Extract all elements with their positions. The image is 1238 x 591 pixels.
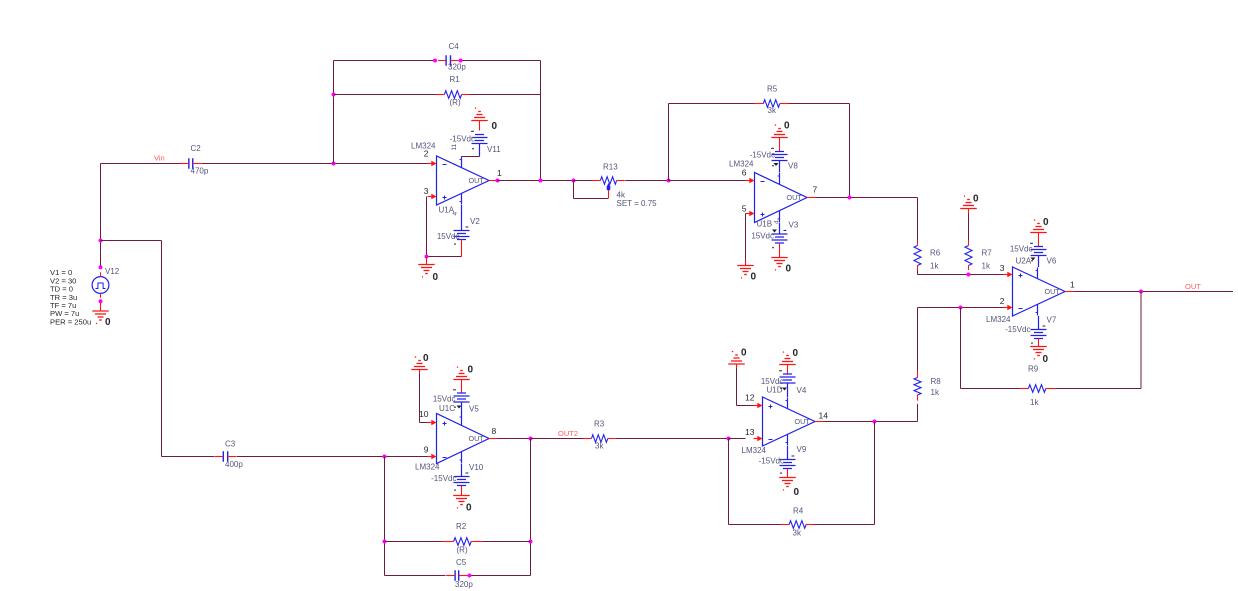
svg-text:0: 0 xyxy=(1043,354,1049,365)
svg-text:V12: V12 xyxy=(105,267,120,276)
svg-text:6: 6 xyxy=(742,168,747,178)
svg-text:3k: 3k xyxy=(768,106,777,115)
svg-text:0: 0 xyxy=(433,272,439,283)
svg-text:U1D: U1D xyxy=(767,386,783,395)
svg-text:OUT: OUT xyxy=(1185,282,1201,291)
svg-text:C2: C2 xyxy=(191,144,202,153)
svg-text:-15Vdc: -15Vdc xyxy=(431,474,456,483)
svg-text:1k: 1k xyxy=(931,388,940,397)
svg-text:0: 0 xyxy=(793,348,799,359)
svg-text:9: 9 xyxy=(424,445,429,455)
svg-text:C5: C5 xyxy=(456,558,467,567)
svg-text:V2: V2 xyxy=(470,217,480,226)
svg-text:11: 11 xyxy=(451,143,458,150)
svg-text:-15Vdc: -15Vdc xyxy=(759,457,784,466)
svg-text:LM324: LM324 xyxy=(742,446,767,455)
svg-text:(R): (R) xyxy=(457,546,468,555)
svg-text:(R): (R) xyxy=(450,98,461,107)
svg-text:3: 3 xyxy=(424,186,429,196)
svg-text:-15Vdc: -15Vdc xyxy=(1005,325,1030,334)
svg-text:V7: V7 xyxy=(1047,316,1057,325)
svg-text:R2: R2 xyxy=(456,522,467,531)
svg-text:-15Vdc: -15Vdc xyxy=(750,151,775,160)
svg-text:R6: R6 xyxy=(930,249,941,258)
svg-text:V3: V3 xyxy=(789,221,799,230)
svg-text:7: 7 xyxy=(813,185,818,195)
svg-text:0: 0 xyxy=(492,121,498,132)
svg-text:3k: 3k xyxy=(793,529,802,538)
svg-text:V6: V6 xyxy=(1047,257,1057,266)
svg-text:0: 0 xyxy=(466,503,472,514)
svg-text:PER = 250u: PER = 250u xyxy=(50,317,91,326)
svg-text:OUT2: OUT2 xyxy=(558,429,578,438)
svg-text:U2A: U2A xyxy=(1016,257,1032,266)
svg-text:3k: 3k xyxy=(595,442,604,451)
svg-text:LM324: LM324 xyxy=(411,142,436,151)
svg-text:15Vdc: 15Vdc xyxy=(761,377,784,386)
svg-text:0: 0 xyxy=(973,194,979,205)
svg-text:14: 14 xyxy=(819,411,829,421)
svg-text:13: 13 xyxy=(745,427,755,437)
svg-text:LM324: LM324 xyxy=(986,315,1011,324)
svg-text:U1B: U1B xyxy=(757,220,773,229)
svg-text:R9: R9 xyxy=(1028,365,1039,374)
svg-text:0: 0 xyxy=(751,272,757,283)
svg-text:320p: 320p xyxy=(455,580,473,589)
svg-text:470p: 470p xyxy=(191,167,209,176)
svg-text:0: 0 xyxy=(105,317,111,328)
svg-text:15Vdc: 15Vdc xyxy=(1010,245,1033,254)
svg-text:C3: C3 xyxy=(225,440,236,449)
svg-text:0: 0 xyxy=(794,487,800,498)
svg-text:320p: 320p xyxy=(448,63,466,72)
svg-text:LM324: LM324 xyxy=(415,463,440,472)
svg-text:C4: C4 xyxy=(449,42,460,51)
svg-text:1k: 1k xyxy=(930,262,939,271)
svg-text:5: 5 xyxy=(742,204,747,214)
svg-text:V10: V10 xyxy=(469,463,484,472)
svg-text:V11: V11 xyxy=(487,145,501,154)
svg-text:3: 3 xyxy=(1000,263,1005,273)
svg-text:0: 0 xyxy=(786,264,792,275)
svg-text:SET = 0.75: SET = 0.75 xyxy=(617,199,658,208)
svg-text:0: 0 xyxy=(468,365,474,376)
svg-text:0: 0 xyxy=(784,121,790,132)
svg-text:U1C: U1C xyxy=(439,404,455,413)
svg-text:1: 1 xyxy=(1070,280,1075,290)
svg-text:12: 12 xyxy=(745,393,755,403)
svg-text:15Vdc: 15Vdc xyxy=(437,232,460,241)
svg-text:8: 8 xyxy=(492,426,497,436)
svg-text:1k: 1k xyxy=(1030,398,1039,407)
svg-text:1: 1 xyxy=(497,168,502,178)
svg-text:R3: R3 xyxy=(594,420,605,429)
svg-text:2: 2 xyxy=(1000,296,1005,306)
svg-text:0: 0 xyxy=(423,353,429,364)
svg-text:R4: R4 xyxy=(793,507,804,516)
svg-text:15Vdc: 15Vdc xyxy=(751,232,774,241)
svg-text:R5: R5 xyxy=(767,85,778,94)
svg-text:0: 0 xyxy=(1043,217,1049,228)
svg-text:V4: V4 xyxy=(797,386,807,395)
svg-text:V9: V9 xyxy=(797,445,807,454)
svg-text:V8: V8 xyxy=(788,162,798,171)
svg-text:R7: R7 xyxy=(982,249,993,258)
svg-text:1k: 1k xyxy=(982,262,991,271)
svg-text:LM324: LM324 xyxy=(729,160,754,169)
svg-text:R1: R1 xyxy=(450,75,461,84)
svg-text:-15Vdc: -15Vdc xyxy=(450,135,475,144)
svg-text:0: 0 xyxy=(741,348,747,359)
svg-text:R8: R8 xyxy=(931,377,942,386)
svg-text:400p: 400p xyxy=(225,460,243,469)
svg-text:R13: R13 xyxy=(603,163,618,172)
svg-text:Vin: Vin xyxy=(154,154,165,163)
svg-text:15Vdc: 15Vdc xyxy=(433,395,456,404)
svg-text:V5: V5 xyxy=(469,405,479,414)
svg-text:4: 4 xyxy=(452,212,459,216)
svg-text:10: 10 xyxy=(419,409,429,419)
